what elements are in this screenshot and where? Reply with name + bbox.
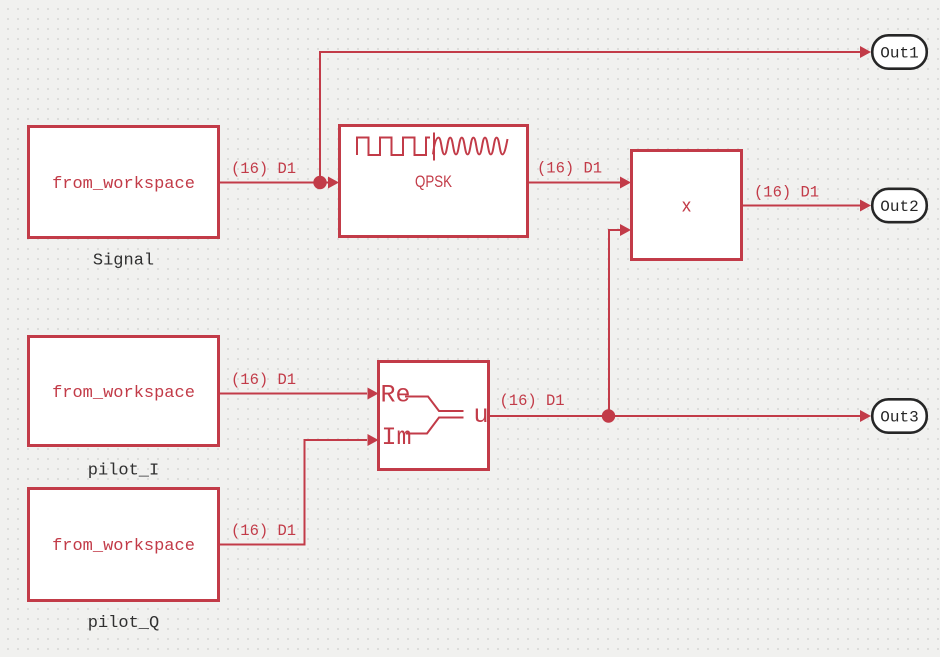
svg-text:Re: Re [381, 381, 411, 410]
svg-text:(16) D1: (16) D1 [754, 184, 819, 202]
svg-text:pilot_Q: pilot_Q [88, 614, 159, 633]
svg-text:(16) D1: (16) D1 [537, 160, 602, 178]
svg-text:Out2: Out2 [880, 198, 918, 216]
svg-text:from_workspace: from_workspace [52, 384, 195, 403]
svg-text:(16) D1: (16) D1 [500, 392, 565, 410]
svg-text:Out1: Out1 [880, 45, 918, 63]
svg-text:QPSK: QPSK [415, 173, 452, 191]
svg-text:x: x [682, 196, 691, 216]
svg-text:from_workspace: from_workspace [52, 175, 195, 194]
svg-text:Signal: Signal [93, 252, 154, 271]
svg-text:(16) D1: (16) D1 [231, 160, 296, 178]
svg-text:u: u [474, 401, 489, 430]
svg-text:pilot_I: pilot_I [88, 462, 159, 481]
svg-text:(16) D1: (16) D1 [231, 522, 296, 540]
svg-text:Out3: Out3 [880, 409, 918, 427]
svg-text:Im: Im [382, 423, 412, 452]
svg-text:(16) D1: (16) D1 [231, 371, 296, 389]
svg-text:from_workspace: from_workspace [52, 537, 195, 556]
